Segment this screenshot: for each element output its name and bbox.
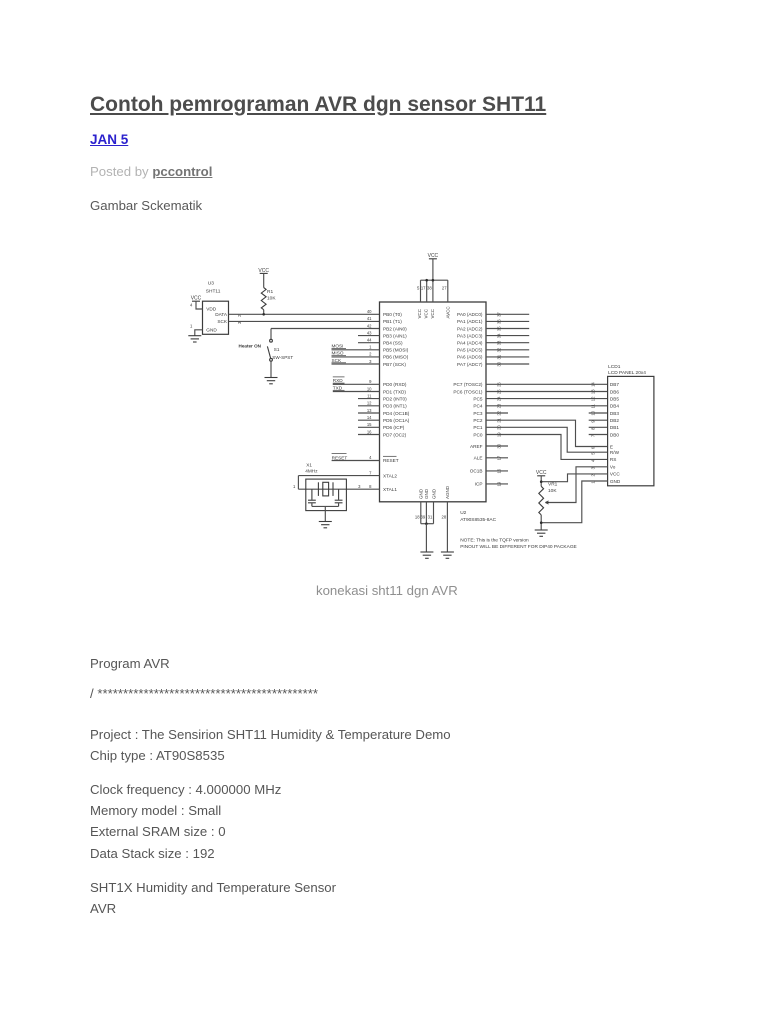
wire SHT11 pin1 GND	[195, 330, 203, 336]
wire PD stub pin 15	[358, 426, 380, 428]
body text	[90, 653, 170, 674]
svg-text:PB2 (AIN0): PB2 (AIN0)	[383, 326, 407, 331]
crystal X1 symbol	[318, 482, 333, 496]
svg-text:13: 13	[591, 389, 596, 394]
svg-text:36: 36	[497, 319, 502, 324]
wire PA stub pin 31	[486, 356, 529, 358]
svg-text:DB5: DB5	[610, 396, 620, 401]
ground below MCU GND	[420, 552, 433, 558]
svg-text:PB6 (MISO): PB6 (MISO)	[383, 355, 409, 360]
svg-text:25: 25	[497, 389, 502, 394]
svg-text:39: 39	[421, 515, 426, 520]
date link JAN 5	[90, 132, 128, 147]
svg-text:X1: X1	[306, 462, 312, 467]
junction R1/DATA junction	[262, 313, 265, 316]
svg-text:Vo: Vo	[610, 465, 616, 470]
svg-text:12: 12	[591, 396, 596, 401]
wire DB stub pin 9	[589, 419, 608, 421]
wire XTAL2 net	[298, 475, 379, 477]
junction GND tie junction	[425, 522, 428, 525]
wire stub pin 16	[486, 470, 508, 472]
wire VCC to VR1	[540, 476, 542, 487]
wire RXD net	[333, 383, 380, 385]
svg-text:31: 31	[497, 354, 502, 359]
svg-text:PC2: PC2	[473, 418, 483, 423]
svg-text:11: 11	[367, 393, 372, 398]
wire R1 bottom to DATA net	[263, 310, 265, 315]
svg-text:44: 44	[367, 338, 372, 343]
svg-text:PB3 (AIN1): PB3 (AIN1)	[383, 333, 407, 338]
svg-text:ICP: ICP	[475, 482, 483, 487]
svg-text:35: 35	[497, 326, 502, 331]
wire DATA net SHT11->PB0	[229, 313, 380, 315]
wire stub pin 17	[486, 457, 508, 459]
svg-text:Heater ON: Heater ON	[239, 343, 262, 348]
sensor U3 SHT11 body	[203, 301, 229, 334]
svg-text:R/W: R/W	[610, 450, 620, 455]
svg-text:26: 26	[497, 382, 502, 387]
svg-text:VCC: VCC	[424, 308, 429, 318]
svg-text:1: 1	[190, 323, 193, 328]
wire net PC->DB y=406	[486, 405, 608, 407]
svg-text:AVCC: AVCC	[445, 306, 450, 319]
svg-text:16: 16	[367, 429, 372, 434]
svg-text:PA5 (ADC5): PA5 (ADC5)	[457, 348, 483, 353]
svg-text:1: 1	[369, 345, 372, 350]
wire PA stub pin 36	[486, 320, 529, 322]
wire net LCD VCC->VR1 top	[541, 474, 607, 482]
svg-text:PD2 (INT0): PD2 (INT0)	[383, 396, 407, 401]
svg-text:SW-SPST: SW-SPST	[272, 355, 293, 360]
power symbol VCC (above MCU)	[428, 253, 439, 259]
svg-text:PC7 (TOSC2): PC7 (TOSC2)	[453, 382, 483, 387]
svg-text:PC4: PC4	[473, 404, 483, 409]
svg-text:40: 40	[367, 309, 372, 314]
svg-text:PA2 (ADC2): PA2 (ADC2)	[457, 326, 483, 331]
wire PB stub pin 43	[358, 335, 380, 337]
svg-text:VR1: VR1	[548, 482, 558, 488]
svg-text:PD0 (RXD): PD0 (RXD)	[383, 382, 407, 387]
wire GND tie to ground	[425, 524, 427, 552]
svg-text:PC6 (TOSC1): PC6 (TOSC1)	[453, 389, 483, 394]
svg-text:SHT11: SHT11	[206, 289, 221, 295]
wire SCK net	[332, 363, 380, 365]
svg-text:1: 1	[293, 484, 296, 489]
svg-text:R1: R1	[267, 289, 273, 295]
svg-text:15: 15	[367, 422, 372, 427]
svg-text:DB2: DB2	[610, 418, 620, 423]
svg-text:PA6 (ADC6): PA6 (ADC6)	[457, 355, 483, 360]
wire TXD net	[333, 391, 380, 393]
svg-text:38: 38	[427, 285, 432, 290]
wire AGND pin wire	[446, 502, 448, 552]
wire GND pin wire x=420.8	[420, 502, 422, 524]
svg-text:PA4 (ADC4): PA4 (ADC4)	[457, 341, 483, 346]
wire VCC pin drop x=420.5	[420, 280, 422, 302]
svg-text:DB6: DB6	[610, 389, 620, 394]
capacitor C2	[335, 489, 343, 506]
VR1 wiper arrow	[545, 501, 549, 504]
caption	[316, 583, 458, 598]
svg-text:VCC: VCC	[610, 472, 621, 477]
svg-text:DB1: DB1	[610, 425, 620, 430]
section label	[90, 198, 202, 213]
svg-text:30: 30	[497, 443, 502, 448]
svg-text:9: 9	[369, 379, 372, 384]
wire PC3 stub	[486, 412, 508, 414]
wire net Vo->VR1 wiper	[545, 467, 607, 503]
svg-text:GND: GND	[206, 328, 217, 333]
svg-text:20: 20	[497, 425, 502, 430]
svg-text:VCC: VCC	[430, 308, 435, 318]
svg-text:U2: U2	[460, 510, 466, 516]
svg-text:PB0 (T0): PB0 (T0)	[383, 312, 402, 317]
svg-text:10K: 10K	[267, 296, 276, 302]
svg-text:14: 14	[367, 415, 372, 420]
wire VCC pin drop x=426.7	[426, 280, 428, 302]
byline	[90, 164, 212, 179]
wire SCK net SHT11->PB1	[229, 320, 380, 322]
junction VR1 bottom junction	[540, 521, 543, 524]
svg-text:RESET: RESET	[332, 455, 348, 460]
svg-text:12: 12	[367, 401, 372, 406]
potentiometer VR1 10K	[539, 486, 544, 515]
svg-text:3: 3	[369, 359, 372, 364]
svg-text:PA0 (ADC0): PA0 (ADC0)	[457, 312, 483, 317]
svg-text:3: 3	[358, 484, 361, 489]
svg-text:RS: RS	[610, 457, 617, 462]
svg-text:PD5 (OC1A): PD5 (OC1A)	[383, 418, 410, 423]
svg-text:14: 14	[591, 382, 596, 387]
svg-text:PC0: PC0	[473, 432, 483, 437]
wire net PC->DB y=384	[486, 383, 608, 385]
svg-text:PD1 (TXD): PD1 (TXD)	[383, 389, 406, 394]
svg-text:31: 31	[428, 515, 433, 520]
svg-text:LCD1: LCD1	[608, 364, 621, 370]
svg-text:DB0: DB0	[610, 432, 620, 437]
svg-text:18: 18	[415, 515, 420, 520]
wire PA stub pin 30	[486, 363, 529, 365]
svg-text:SCK: SCK	[217, 319, 228, 324]
svg-text:NOTE: This is the TQFP version: NOTE: This is the TQFP version	[460, 538, 529, 544]
wire VCC bracket	[421, 279, 448, 281]
junction bracket junction b	[432, 279, 435, 282]
svg-text:GND: GND	[610, 479, 621, 484]
svg-text:8: 8	[369, 484, 372, 489]
ground below S1	[265, 378, 278, 384]
wire PA stub pin 33	[486, 342, 529, 344]
svg-text:XTAL1: XTAL1	[383, 487, 397, 492]
svg-text:OC1B: OC1B	[470, 469, 483, 474]
wire net PC0->RS	[486, 435, 608, 460]
svg-text:DB3: DB3	[610, 411, 620, 416]
wire PD stub pin 14	[358, 419, 380, 421]
wire DB stub pin 8	[589, 426, 608, 428]
wire net PC2->E	[486, 420, 608, 446]
wire GND pin wire x=426.4	[425, 502, 427, 524]
svg-text:30: 30	[497, 361, 502, 366]
wire DB stub pin 7	[589, 434, 608, 436]
svg-text:U3: U3	[208, 281, 214, 287]
wire stub pin 19	[486, 483, 508, 485]
svg-text:PA7 (ADC7): PA7 (ADC7)	[457, 362, 483, 367]
svg-text:4: 4	[369, 455, 372, 460]
ground below VR1	[535, 530, 548, 536]
svg-text:41: 41	[367, 316, 372, 321]
svg-text:DB7: DB7	[610, 382, 620, 387]
wire switch top stub	[270, 329, 272, 340]
svg-text:PD7 (OC2): PD7 (OC2)	[383, 432, 407, 437]
wire PA stub pin 35	[486, 328, 529, 330]
svg-text:5: 5	[417, 285, 420, 290]
svg-text:PC5: PC5	[473, 396, 483, 401]
wire PD stub pin 16	[358, 434, 380, 436]
svg-text:DATA: DATA	[215, 312, 228, 317]
svg-text:PC1: PC1	[473, 425, 483, 430]
svg-text:21: 21	[497, 417, 502, 422]
svg-text:AT90S8535-8AC: AT90S8535-8AC	[460, 517, 496, 523]
wire MISO net	[332, 356, 380, 358]
svg-text:PB4 (SS): PB4 (SS)	[383, 341, 403, 346]
wire net PC->DB y=391	[486, 391, 608, 393]
resistor R1 10K	[261, 288, 266, 310]
svg-text:PA1 (ADC1): PA1 (ADC1)	[457, 319, 483, 324]
wire SHT11 pin4 VDD	[196, 301, 203, 309]
wire PD stub pin 12	[358, 405, 380, 407]
wire PB2 net switch->MCU	[271, 328, 380, 330]
svg-text:PB5 (MOSI): PB5 (MOSI)	[383, 348, 409, 353]
wire net PC1->RW	[486, 427, 608, 452]
svg-text:10: 10	[591, 410, 596, 415]
wire rail to ground	[324, 506, 326, 521]
svg-text:VCC: VCC	[417, 308, 422, 318]
junction bracket junction a	[425, 279, 428, 282]
wire GND tie bar	[421, 523, 434, 525]
svg-text:AGND: AGND	[445, 485, 450, 499]
wire PA stub pin 32	[486, 349, 529, 351]
svg-text:PINOUT WILL BE DIFFERENT FOR D: PINOUT WILL BE DIFFERENT FOR DIP40 PACKA…	[460, 544, 577, 550]
svg-text:10K: 10K	[548, 488, 557, 494]
wire VR1 bottom wire	[540, 515, 542, 530]
svg-text:24: 24	[497, 396, 502, 401]
svg-text:33: 33	[497, 340, 502, 345]
wire VCC drop to bracket	[432, 259, 434, 280]
svg-text:22: 22	[497, 410, 502, 415]
svg-text:MISO: MISO	[332, 351, 344, 356]
ground below SHT11	[188, 336, 201, 342]
ground below crystal	[319, 522, 332, 528]
crystal subcircuit box	[306, 479, 347, 511]
svg-text:27: 27	[442, 285, 447, 290]
wire MOSI net	[332, 349, 380, 351]
svg-text:PB7 (SCK): PB7 (SCK)	[383, 362, 406, 367]
wire PB stub pin 44	[358, 342, 380, 344]
svg-text:23: 23	[497, 403, 502, 408]
wire net LCD GND->VR1 bottom	[541, 481, 607, 523]
wire caps bottom rail	[312, 505, 339, 507]
svg-text:11: 11	[591, 403, 596, 408]
power symbol VCC (above VR1)	[536, 470, 547, 476]
wire stub pin 30	[486, 445, 508, 447]
svg-text:42: 42	[367, 323, 372, 328]
svg-text:SCK: SCK	[332, 358, 343, 363]
svg-text:2: 2	[369, 352, 372, 357]
wire PA stub pin 37	[486, 313, 529, 315]
svg-text:GND: GND	[419, 488, 424, 499]
LCD module LCD1 body	[608, 376, 654, 485]
svg-text:XTAL2: XTAL2	[383, 473, 397, 478]
svg-text:19: 19	[497, 481, 502, 486]
svg-text:4MHz: 4MHz	[305, 469, 318, 474]
svg-text:PA3 (ADC3): PA3 (ADC3)	[457, 333, 483, 338]
svg-text:RXD: RXD	[333, 378, 344, 383]
svg-text:TXD: TXD	[333, 385, 343, 390]
wire RESET net	[332, 460, 380, 462]
svg-text:DB4: DB4	[610, 404, 620, 409]
svg-text:13: 13	[367, 408, 372, 413]
capacitor C1	[308, 489, 316, 506]
svg-text:10: 10	[367, 386, 372, 391]
svg-text:16: 16	[497, 468, 502, 473]
svg-text:17: 17	[497, 455, 502, 460]
svg-text:37: 37	[497, 312, 502, 317]
wire VCC to R1 top	[263, 273, 265, 287]
wire XTAL1 net	[298, 488, 379, 490]
svg-text:LCD PANEL 20x4: LCD PANEL 20x4	[608, 370, 646, 376]
MCU U2 AT90S8535 body	[380, 302, 487, 502]
svg-text:32: 32	[497, 347, 502, 352]
svg-text:E: E	[610, 444, 613, 449]
wire VCC pin drop x=432.9	[432, 280, 434, 302]
svg-text:4: 4	[190, 303, 193, 308]
svg-text:17: 17	[421, 285, 426, 290]
wire switch bottom to ground	[270, 361, 272, 377]
svg-text:AREF: AREF	[470, 444, 483, 449]
svg-text:19: 19	[497, 432, 502, 437]
wire net PC->DB y=399	[486, 398, 608, 400]
wire VCC pin drop x=447.8	[447, 280, 449, 302]
wire PD stub pin 13	[358, 412, 380, 414]
svg-text:43: 43	[367, 330, 372, 335]
wire crystal left vertical	[297, 476, 299, 490]
power symbol VCC (above R1)	[258, 268, 269, 274]
svg-text:VDD: VDD	[206, 307, 217, 312]
switch S1 SW-SPST	[267, 339, 272, 361]
junction VR1 top junction	[540, 480, 543, 483]
svg-text:S1: S1	[274, 347, 280, 352]
svg-text:PD4 (OC1B): PD4 (OC1B)	[383, 411, 410, 416]
power symbol VCC (at SHT11 VDD)	[191, 296, 202, 302]
svg-text:ALE: ALE	[474, 456, 483, 461]
svg-text:RESET: RESET	[383, 458, 399, 463]
svg-text:GND: GND	[424, 488, 429, 499]
svg-text:PD3 (INT1): PD3 (INT1)	[383, 404, 407, 409]
svg-text:7: 7	[369, 470, 372, 475]
wire PD stub pin 11	[358, 398, 380, 400]
svg-text:GND: GND	[431, 488, 436, 499]
wire DB stub pin 10	[589, 412, 608, 414]
svg-text:PB1 (T1): PB1 (T1)	[383, 319, 402, 324]
svg-text:PD6 (ICP): PD6 (ICP)	[383, 425, 405, 430]
wire GND pin wire x=433.5	[433, 502, 435, 524]
svg-text:MOSI: MOSI	[332, 344, 344, 349]
page title	[90, 93, 546, 117]
ground below MCU AGND	[441, 552, 454, 558]
svg-text:28: 28	[442, 515, 447, 520]
svg-text:PC3: PC3	[473, 411, 483, 416]
wire PA stub pin 34	[486, 335, 529, 337]
svg-text:34: 34	[497, 333, 502, 338]
